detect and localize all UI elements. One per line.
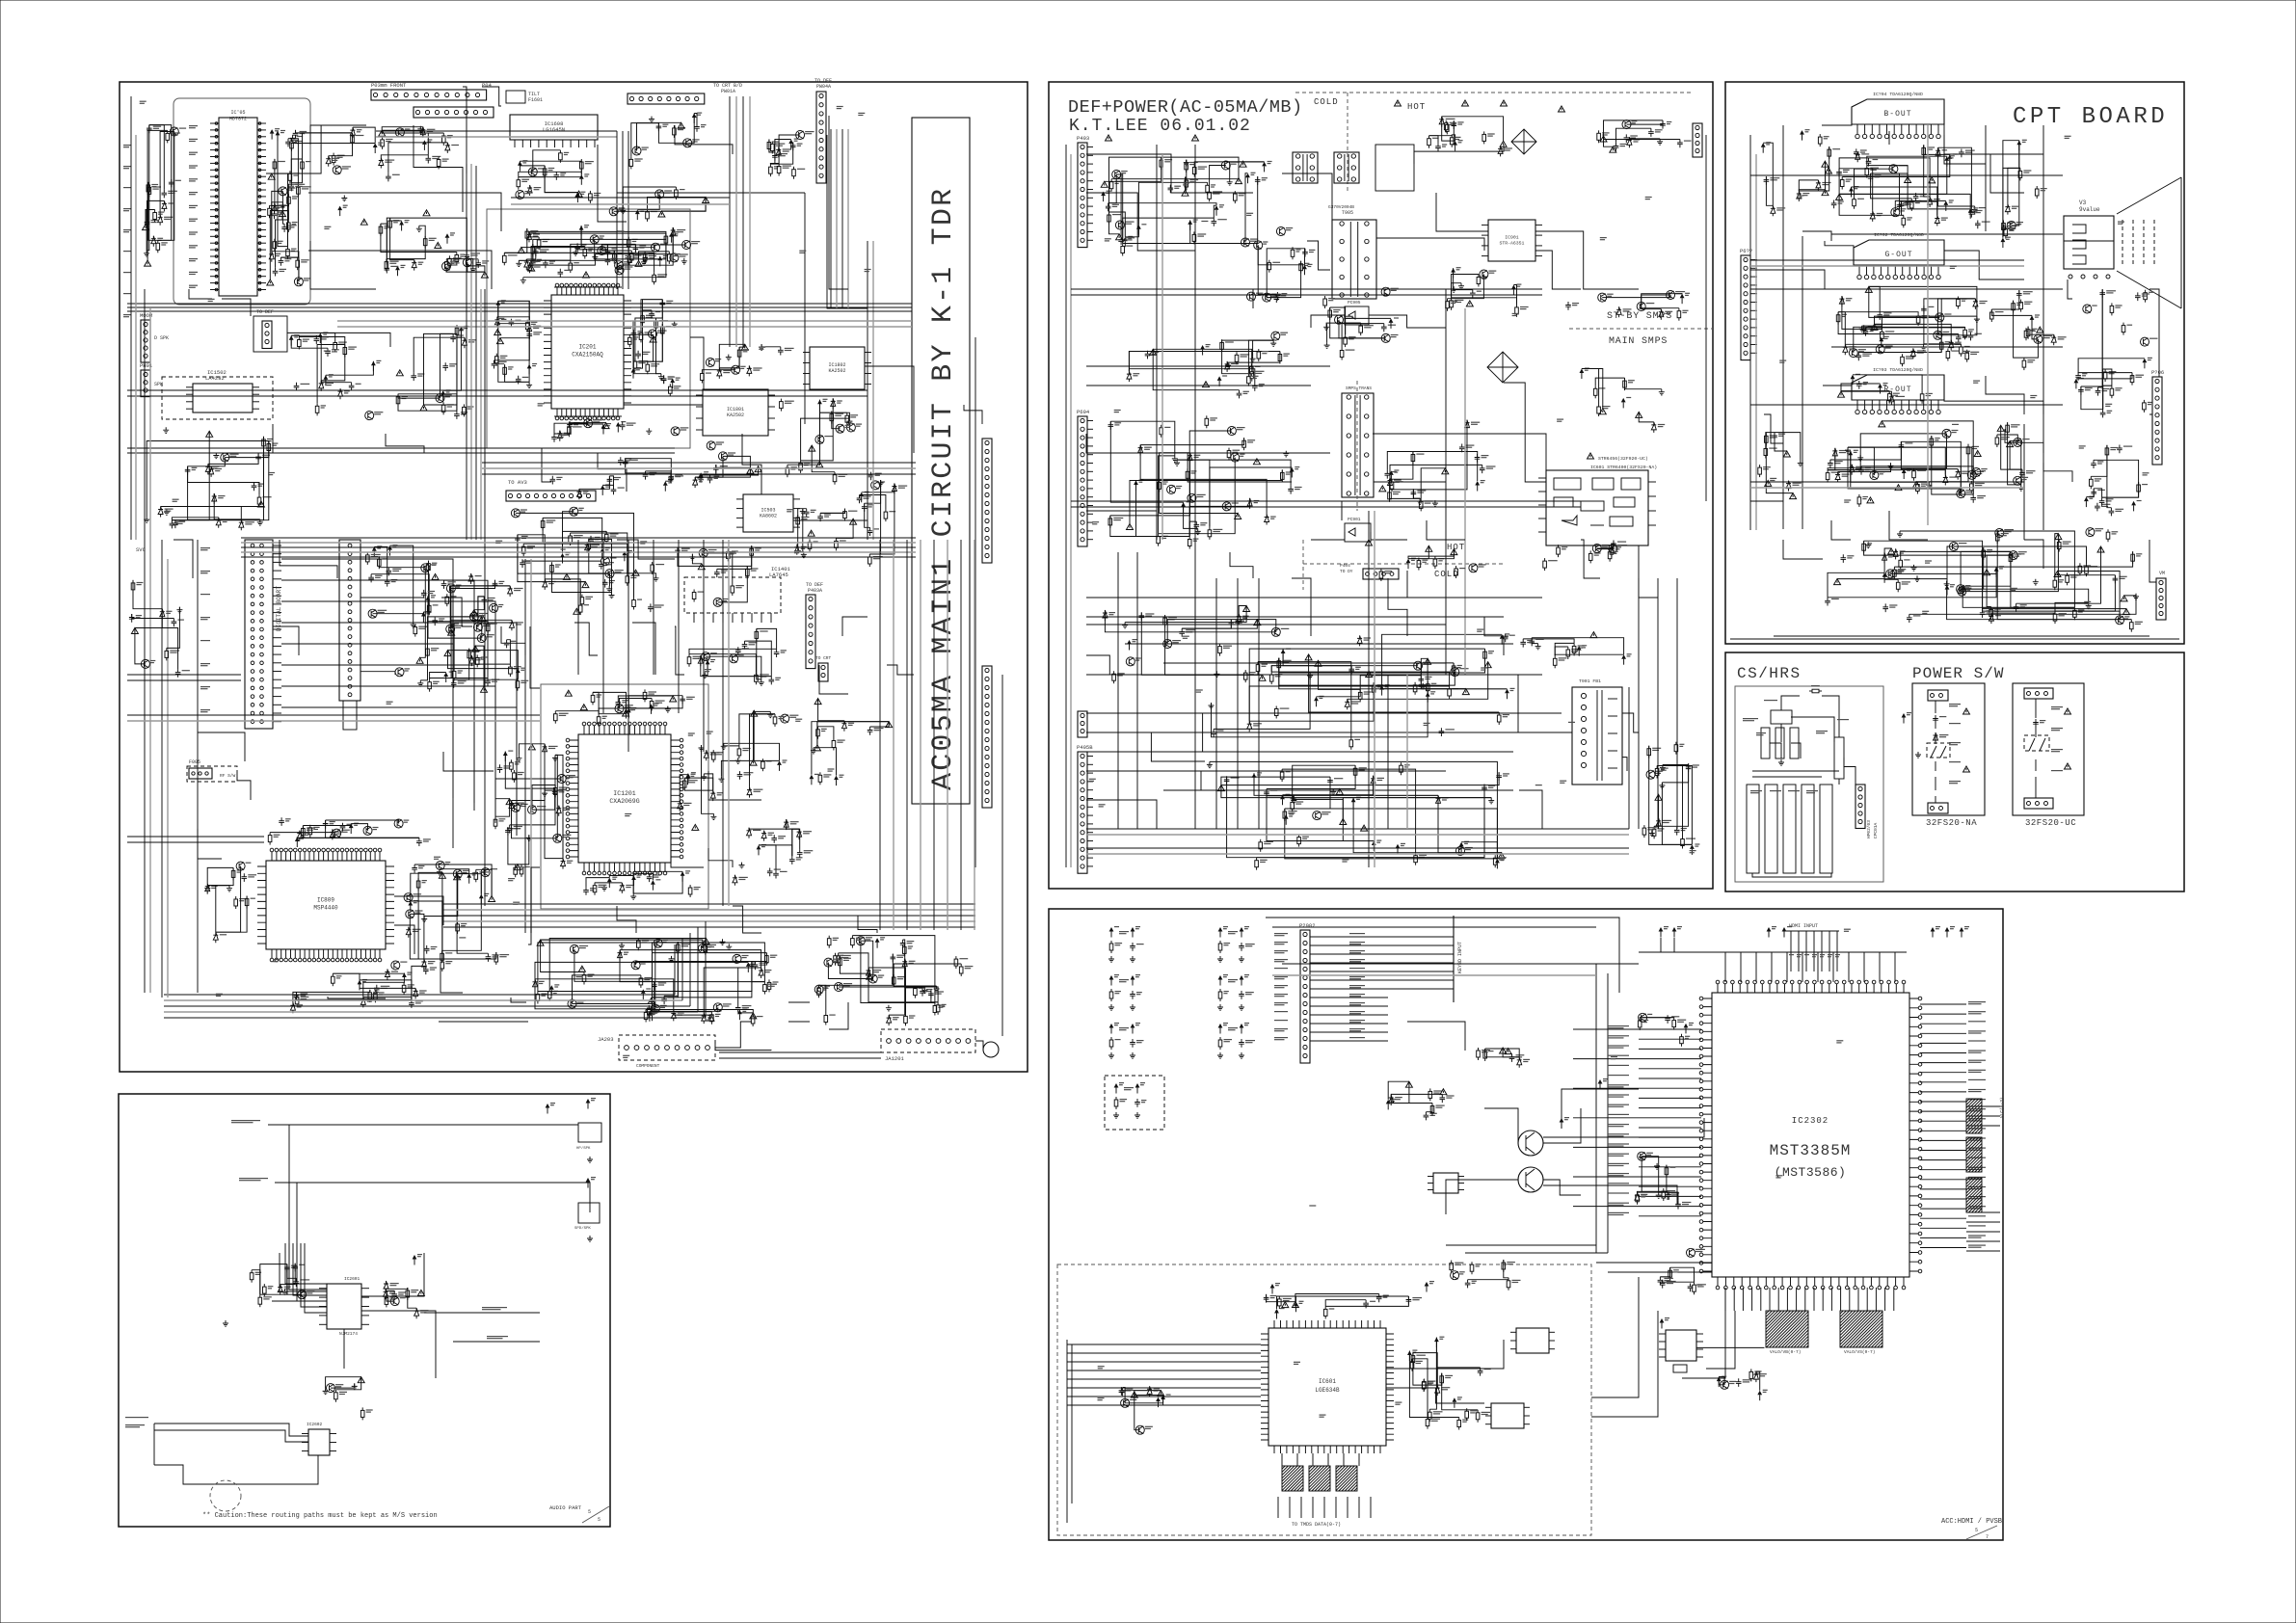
svg-text:KA2502: KA2502	[828, 368, 845, 374]
svg-text:JA203: JA203	[598, 1036, 614, 1043]
svg-text:ACC:HDMI / PVSB: ACC:HDMI / PVSB	[1941, 1518, 2002, 1526]
svg-text:SPD/SPK: SPD/SPK	[574, 1226, 591, 1231]
svg-text:IC809: IC809	[317, 897, 334, 904]
svg-text:HP/SPK: HP/SPK	[576, 1146, 591, 1151]
svg-text:P405B: P405B	[1077, 744, 1093, 751]
svg-text:IC2602: IC2602	[307, 1422, 323, 1427]
svg-text:VALO/VB(0-7): VALO/VB(0-7)	[1770, 1349, 1801, 1355]
svg-text:LGE634B: LGE634B	[1315, 1387, 1340, 1394]
svg-text:5: 5	[1975, 1528, 1978, 1533]
svg-text:IC601: IC601	[1319, 1378, 1336, 1385]
svg-text:F005: F005	[189, 759, 200, 765]
svg-text:PC905: PC905	[1348, 300, 1361, 306]
svg-text:B-OUT: B-OUT	[1883, 110, 1911, 119]
svg-text:IC601 STR6400(32FS20-NA): IC601 STR6400(32FS20-NA)	[1590, 465, 1657, 470]
svg-text:** Caution:These routing paths: ** Caution:These routing paths must be k…	[202, 1512, 438, 1520]
svg-text:RF S/W: RF S/W	[220, 773, 236, 779]
svg-text:P403: P403	[1077, 135, 1089, 142]
svg-text:IC901: IC901	[1505, 235, 1519, 241]
svg-text:K.T.LEE 06.01.02: K.T.LEE 06.01.02	[1069, 117, 1251, 136]
svg-text:P604: P604	[1077, 409, 1090, 415]
svg-text:HOT: HOT	[1447, 543, 1465, 552]
svg-text:HOT: HOT	[1407, 102, 1426, 112]
svg-text:7: 7	[1986, 1534, 1989, 1540]
svg-text:AC05MA MAIN1 CIRCUIT BY K-1 T: AC05MA MAIN1 CIRCUIT BY K-1 TDR	[927, 187, 960, 790]
svg-text:TO DY: TO DY	[1340, 569, 1353, 574]
svg-text:P404: P404	[1340, 563, 1350, 569]
svg-text:LG1645N: LG1645N	[543, 126, 565, 133]
svg-text:CPC01A: CPC01A	[1873, 822, 1879, 838]
svg-text:SMPS TRANS: SMPS TRANS	[1346, 386, 1372, 391]
svg-text:T905: T905	[1342, 210, 1353, 216]
svg-text:F1601: F1601	[528, 97, 543, 103]
svg-text:TO DEF: TO DEF	[256, 309, 274, 315]
svg-text:AUDIO PART: AUDIO PART	[549, 1504, 582, 1511]
svg-text:TO TMDS DATA(0-7): TO TMDS DATA(0-7)	[1292, 1522, 1341, 1528]
svg-text:LA4282: LA4282	[205, 375, 225, 382]
svg-text:LA7645: LA7645	[769, 572, 788, 578]
svg-text:P04: P04	[482, 82, 493, 89]
svg-text:CS/HRS: CS/HRS	[1737, 665, 1802, 682]
svg-text:MAIN SMPS: MAIN SMPS	[1609, 336, 1668, 347]
svg-text:TO AV3: TO AV3	[508, 479, 527, 486]
svg-text:IC?04 TDA6120Q/N8D: IC?04 TDA6120Q/N8D	[1873, 92, 1923, 97]
svg-text:VM: VM	[2159, 571, 2165, 576]
svg-text:P03mm FRONT: P03mm FRONT	[371, 82, 407, 89]
svg-text:PW04A: PW04A	[816, 84, 831, 90]
svg-text:32FS20-UC: 32FS20-UC	[2025, 818, 2076, 828]
svg-text:CXA2150AQ: CXA2150AQ	[572, 352, 603, 359]
svg-text:T901 FB1: T901 FB1	[1579, 678, 1601, 684]
svg-text:VALO/VS(0-7): VALO/VS(0-7)	[1844, 1349, 1875, 1355]
svg-text:JA1201: JA1201	[885, 1055, 905, 1062]
svg-text:9value: 9value	[2079, 206, 2100, 213]
svg-text:TO CRT: TO CRT	[815, 655, 832, 661]
svg-text:IC201: IC201	[578, 344, 596, 351]
svg-text:V3: V3	[2079, 200, 2087, 206]
svg-text:HP02/03: HP02/03	[1866, 820, 1872, 838]
svg-text:32FS20-NA: 32FS20-NA	[1926, 818, 1977, 828]
svg-text:DIGITAL BOART: DIGITAL BOART	[276, 586, 282, 631]
svg-text:G-OUT: G-OUT	[1884, 251, 1912, 259]
svg-text:IC2302: IC2302	[1792, 1116, 1829, 1126]
svg-text:(MST3586): (MST3586)	[1775, 1165, 1847, 1180]
svg-text:IC'05: IC'05	[230, 110, 245, 116]
svg-text:IC1201: IC1201	[613, 790, 636, 797]
svg-text:P2902: P2902	[1299, 922, 1316, 929]
svg-text:COLD: COLD	[1314, 97, 1339, 107]
svg-text:STR-A6351: STR-A6351	[1500, 241, 1525, 247]
svg-text:IC?03 TDA6120Q/N8D: IC?03 TDA6120Q/N8D	[1873, 367, 1923, 373]
svg-text:KEYBD INPUT: KEYBD INPUT	[1457, 942, 1463, 973]
svg-text:HD7872: HD7872	[229, 117, 247, 122]
svg-text:D SPK: D SPK	[154, 335, 169, 341]
svg-text:IC2601: IC2601	[344, 1276, 360, 1282]
svg-text:PW01A: PW01A	[721, 89, 735, 94]
svg-text:COMPONENT: COMPONENT	[636, 1063, 660, 1069]
svg-text:IC?02 TDA6120Q/N8D: IC?02 TDA6120Q/N8D	[1874, 232, 1924, 238]
svg-text:5: 5	[588, 1509, 591, 1515]
svg-text:P?06: P?06	[2151, 369, 2164, 376]
svg-text:KA8602: KA8602	[760, 514, 777, 519]
svg-text:CPT BOARD: CPT BOARD	[2013, 104, 2168, 130]
svg-text:HDMI INPUT: HDMI INPUT	[1789, 923, 1818, 929]
svg-text:VLC(0-3): VLC(0-3)	[1999, 1097, 2005, 1118]
svg-text:PC901: PC901	[1348, 517, 1361, 522]
svg-text:MSP4440: MSP4440	[313, 905, 338, 912]
svg-text:NJM2174: NJM2174	[339, 1331, 358, 1337]
svg-text:SPK: SPK	[154, 382, 163, 387]
svg-text:KA2502: KA2502	[727, 412, 744, 418]
svg-text:P403A: P403A	[808, 588, 822, 594]
svg-text:PH01: PH01	[140, 362, 153, 369]
svg-text:5: 5	[598, 1517, 601, 1523]
svg-text:CXA2069G: CXA2069G	[609, 798, 639, 805]
svg-text:COLD: COLD	[1434, 570, 1459, 579]
svg-text:MST3385M: MST3385M	[1770, 1142, 1852, 1159]
svg-text:POWER S/W: POWER S/W	[1912, 665, 2004, 682]
svg-text:DEF+POWER(AC-05MA/MB): DEF+POWER(AC-05MA/MB)	[1068, 97, 1303, 118]
svg-text:STR6456(32F920-UC): STR6456(32F920-UC)	[1598, 456, 1648, 462]
